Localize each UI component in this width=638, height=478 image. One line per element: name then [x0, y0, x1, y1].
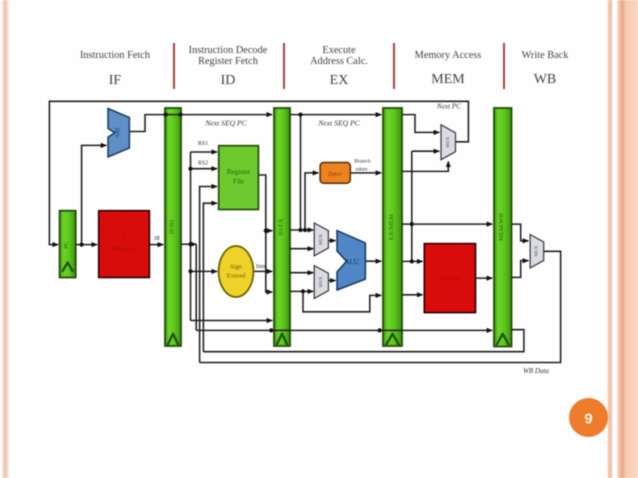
- svg-text:PC: PC: [63, 241, 70, 249]
- svg-text:MEM: MEM: [431, 72, 465, 87]
- svg-text:RS2: RS2: [198, 161, 208, 167]
- svg-text:RS1: RS1: [198, 141, 208, 147]
- svg-text:EX: EX: [330, 73, 349, 88]
- svg-text:MUX: MUX: [318, 276, 323, 287]
- svg-text:IF: IF: [109, 73, 122, 88]
- svg-text:9: 9: [584, 411, 592, 428]
- svg-text:Write Back: Write Back: [522, 50, 570, 61]
- svg-text:ALU: ALU: [344, 258, 358, 266]
- svg-text:Memory Access: Memory Access: [415, 50, 482, 61]
- svg-text:Sign: Sign: [230, 264, 243, 271]
- svg-text:Execute: Execute: [322, 45, 356, 56]
- svg-text:ID/EX: ID/EX: [278, 218, 285, 236]
- svg-text:MUX: MUX: [445, 136, 450, 147]
- svg-text:Address Calc.: Address Calc.: [310, 56, 368, 67]
- svg-text:Register: Register: [227, 168, 251, 176]
- svg-text:MUX: MUX: [533, 245, 538, 256]
- svg-text:Imm: Imm: [256, 264, 267, 270]
- svg-text:Add: Add: [115, 128, 121, 138]
- svg-text:File: File: [233, 178, 244, 186]
- svg-text:Register Fetch: Register Fetch: [198, 56, 259, 67]
- svg-text:Next SEQ PC: Next SEQ PC: [204, 119, 247, 128]
- svg-text:WB: WB: [534, 72, 557, 87]
- svg-text:Extend: Extend: [227, 273, 246, 280]
- svg-text:Next SEQ PC: Next SEQ PC: [317, 119, 360, 128]
- svg-text:taken: taken: [355, 167, 367, 173]
- svg-text:Branch: Branch: [354, 159, 370, 165]
- svg-text:Memory: Memory: [112, 245, 137, 253]
- svg-text:EX/MEM: EX/MEM: [388, 214, 395, 240]
- svg-text:IF/ID: IF/ID: [169, 219, 176, 234]
- svg-text:Instruction Fetch: Instruction Fetch: [80, 50, 151, 61]
- svg-text:IR: IR: [153, 236, 160, 242]
- svg-text:MUX: MUX: [318, 233, 323, 244]
- svg-text:MEM/WB: MEM/WB: [498, 212, 505, 240]
- svg-text:Memory: Memory: [439, 275, 462, 282]
- svg-text:WB Data: WB Data: [523, 367, 549, 375]
- svg-text:ID: ID: [221, 73, 236, 88]
- svg-text:Next PC: Next PC: [436, 103, 461, 111]
- svg-text:Instruction Decode: Instruction Decode: [189, 45, 268, 56]
- svg-text:Zero?: Zero?: [328, 171, 343, 178]
